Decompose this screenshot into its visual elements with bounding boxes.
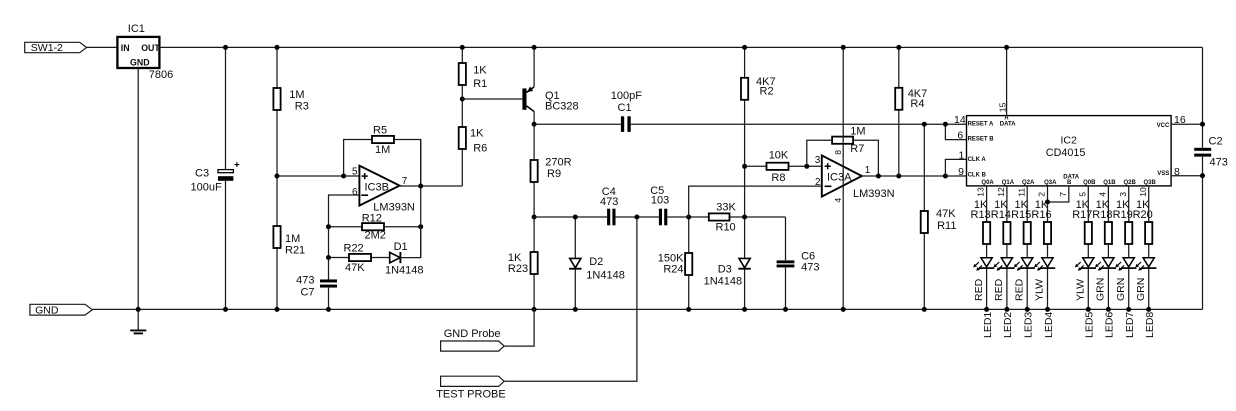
svg-text:Q1A: Q1A — [1002, 180, 1015, 186]
wire collector net to C1 and IC2 pin14 — [534, 123, 621, 125]
capacitor C1 100pF — [621, 116, 624, 132]
wire pin6 net — [329, 195, 360, 280]
svg-text:VCC: VCC — [1157, 123, 1170, 129]
svg-text:Q0B: Q0B — [1083, 180, 1096, 186]
svg-text:R13: R13 — [971, 209, 991, 221]
capacitor C2 473 — [1194, 148, 1211, 151]
wire mid net to IC3A pin2 — [689, 186, 822, 217]
flag GND — [30, 304, 93, 315]
svg-text:1K: 1K — [508, 252, 522, 264]
svg-text:100pF: 100pF — [611, 90, 642, 102]
diode D1 1N4148 — [390, 252, 401, 262]
svg-text:R24: R24 — [663, 263, 683, 275]
resistor R16 1K — [1044, 222, 1051, 244]
svg-text:1K: 1K — [473, 65, 487, 77]
svg-text:R9: R9 — [547, 168, 561, 180]
svg-text:13: 13 — [976, 187, 986, 197]
resistor R22 47K — [329, 257, 350, 259]
svg-text:R18: R18 — [1092, 209, 1112, 221]
svg-text:33K: 33K — [716, 201, 736, 213]
svg-text:3: 3 — [815, 155, 821, 166]
svg-text:473: 473 — [600, 196, 618, 208]
svg-text:14: 14 — [954, 114, 966, 126]
svg-text:R22: R22 — [344, 243, 364, 255]
resistor R20 1K — [1145, 222, 1152, 244]
svg-text:LM393N: LM393N — [373, 201, 415, 213]
svg-text:12: 12 — [996, 187, 1006, 197]
svg-text:1N4148: 1N4148 — [586, 269, 625, 281]
svg-text:R15: R15 — [1011, 209, 1031, 221]
wire IC3A output to IC2 CLK B — [862, 175, 967, 177]
LED LED5 YLW — [1083, 258, 1094, 267]
diode D2 1N4148 — [574, 217, 576, 258]
svg-text:RESET B: RESET B — [968, 136, 995, 142]
svg-text:11: 11 — [1016, 188, 1026, 197]
wire IC1 GND pin down to rail — [137, 68, 139, 309]
svg-text:D3: D3 — [718, 263, 732, 275]
svg-text:2: 2 — [1037, 192, 1047, 197]
svg-text:Q0A: Q0A — [981, 180, 994, 186]
svg-text:GND: GND — [35, 305, 59, 317]
svg-text:7: 7 — [1058, 192, 1068, 197]
op-amp IC3A LM393N — [822, 155, 862, 196]
svg-text:IC3B: IC3B — [365, 182, 389, 194]
LED LED7 GRN — [1123, 258, 1134, 267]
capacitor C3 100uF — [225, 47, 227, 169]
ground symbol — [137, 309, 139, 330]
svg-text:LED3: LED3 — [1023, 312, 1035, 338]
svg-text:GRN: GRN — [1135, 278, 1147, 301]
wire IC3A supply pins 8/4 — [842, 47, 844, 309]
svg-text:LED2: LED2 — [1002, 312, 1014, 338]
svg-text:LED4: LED4 — [1043, 312, 1055, 338]
svg-text:OUT: OUT — [141, 43, 160, 53]
svg-text:1N4148: 1N4148 — [385, 264, 424, 276]
svg-text:R21: R21 — [285, 244, 305, 256]
svg-text:BC328: BC328 — [545, 100, 579, 112]
svg-text:TEST PROBE: TEST PROBE — [436, 388, 505, 400]
svg-text:R12: R12 — [362, 212, 382, 224]
wire SW1-2 to IC1 IN — [87, 46, 118, 48]
LED LED2 RED — [1001, 258, 1012, 267]
wire IC2 pin15 DATA A — [1006, 47, 1008, 115]
LED LED3 RED — [1022, 258, 1033, 267]
svg-text:R4: R4 — [910, 98, 924, 110]
svg-text:CLK B: CLK B — [968, 172, 987, 178]
resistor R12 2M2 — [329, 226, 363, 228]
svg-text:4: 4 — [833, 198, 843, 203]
resistor R18 1K — [1105, 222, 1112, 244]
svg-text:473: 473 — [296, 274, 314, 286]
svg-text:VSS: VSS — [1157, 171, 1169, 177]
svg-text:Q1B: Q1B — [1103, 180, 1116, 186]
svg-text:IC3A: IC3A — [827, 172, 852, 184]
resistor R3 1M — [276, 47, 278, 88]
svg-text:1N4148: 1N4148 — [704, 275, 743, 287]
svg-text:IC2: IC2 — [1061, 135, 1078, 147]
resistor R17 1K — [1085, 222, 1092, 244]
svg-text:IN: IN — [121, 43, 130, 53]
shift register IC2 CD4015 — [967, 116, 1172, 186]
svg-text:6: 6 — [352, 187, 358, 198]
svg-text:1: 1 — [865, 165, 871, 176]
svg-text:R19: R19 — [1113, 209, 1133, 221]
svg-text:R23: R23 — [508, 263, 528, 275]
diode D3 1N4148 — [739, 258, 750, 267]
capacitor C7 473 — [320, 279, 337, 282]
wire GND Probe to rail — [504, 309, 534, 346]
svg-text:Q2A: Q2A — [1022, 180, 1035, 186]
svg-text:GND Probe: GND Probe — [444, 328, 501, 340]
svg-text:A: A — [1004, 115, 1009, 121]
transistor Q1 BC328 — [522, 88, 526, 109]
svg-text:10: 10 — [1138, 187, 1148, 197]
svg-text:R3: R3 — [295, 100, 309, 112]
wire base of Q1 — [462, 98, 522, 100]
resistor R2 4K7 — [744, 47, 746, 77]
svg-text:1M: 1M — [850, 125, 865, 137]
svg-text:RED: RED — [973, 278, 985, 301]
resistor R24 150K — [688, 217, 690, 253]
resistor R6 1K — [461, 149, 463, 186]
svg-text:473: 473 — [1210, 156, 1228, 168]
wire top rail (+6V) — [159, 46, 1202, 48]
resistor R23 1K — [533, 217, 535, 252]
svg-text:C2: C2 — [1209, 136, 1223, 148]
svg-text:R17: R17 — [1072, 209, 1092, 221]
resistor R10 33K — [709, 213, 730, 220]
svg-text:1: 1 — [959, 150, 965, 162]
svg-text:Q2B: Q2B — [1124, 180, 1137, 186]
svg-text:LED5: LED5 — [1084, 312, 1096, 338]
svg-text:9: 9 — [958, 166, 964, 178]
wire CLK A tie — [945, 159, 966, 176]
wire bottom GND rail — [92, 308, 1202, 310]
svg-text:100uF: 100uF — [191, 181, 222, 193]
resistor R19 1K — [1125, 222, 1132, 244]
svg-text:4: 4 — [1098, 192, 1108, 197]
svg-text:1M: 1M — [289, 89, 304, 101]
svg-text:7806: 7806 — [149, 69, 173, 81]
svg-text:LED7: LED7 — [1124, 312, 1136, 338]
svg-text:47K: 47K — [936, 208, 956, 220]
svg-text:R1: R1 — [473, 78, 487, 90]
svg-text:1M: 1M — [285, 233, 300, 245]
resistor R4 4K7 — [898, 47, 900, 87]
svg-text:D2: D2 — [589, 256, 603, 268]
resistor R5 1M feedback — [344, 140, 372, 177]
svg-text:C3: C3 — [195, 168, 209, 180]
svg-text:R14: R14 — [991, 209, 1011, 221]
wire IC2 VCC pin16 — [1171, 123, 1202, 125]
wire IC2 VSS pin8 — [1171, 175, 1202, 177]
svg-text:RESET A: RESET A — [968, 121, 994, 127]
capacitor C6 473 — [785, 217, 787, 260]
svg-text:RED: RED — [993, 278, 1005, 301]
svg-text:CLK A: CLK A — [968, 157, 987, 163]
LED LED4 YLW — [1042, 258, 1053, 267]
svg-text:6: 6 — [957, 130, 963, 142]
capacitor C4 473 — [607, 209, 610, 226]
svg-text:R11: R11 — [937, 220, 956, 232]
capacitor C5 103 — [659, 209, 662, 226]
svg-text:LED6: LED6 — [1104, 312, 1116, 338]
wire IC3B output net — [400, 185, 463, 187]
svg-text:DATA: DATA — [1000, 122, 1016, 128]
svg-text:2: 2 — [815, 177, 821, 188]
svg-text:R2: R2 — [760, 86, 774, 98]
wire RESET B tie — [945, 124, 966, 139]
svg-text:8: 8 — [833, 150, 843, 155]
svg-text:1M: 1M — [375, 144, 390, 156]
svg-text:5: 5 — [1077, 192, 1087, 197]
resistor R13 1K — [983, 222, 990, 244]
resistor R21 1M — [276, 176, 278, 226]
svg-text:2M2: 2M2 — [365, 229, 386, 241]
svg-text:R16: R16 — [1031, 209, 1051, 221]
svg-text:R6: R6 — [473, 143, 487, 155]
svg-text:YLW: YLW — [1075, 279, 1087, 301]
svg-text:IC1: IC1 — [128, 23, 145, 35]
svg-text:C7: C7 — [300, 286, 314, 298]
svg-text:YLW: YLW — [1034, 279, 1046, 301]
svg-text:DATA: DATA — [1063, 174, 1079, 180]
svg-text:LED8: LED8 — [1144, 312, 1156, 338]
svg-text:103: 103 — [651, 195, 669, 207]
svg-text:GND: GND — [130, 57, 150, 67]
wire node pin5 net — [277, 175, 359, 177]
op-amp IC3B LM393N — [359, 166, 399, 206]
resistor R14 1K — [1003, 222, 1010, 244]
wire right edge VSS to bottom rail — [1202, 157, 1204, 310]
resistor R9 270R — [533, 124, 535, 160]
svg-text:R10: R10 — [716, 221, 736, 233]
svg-text:10K: 10K — [769, 150, 789, 162]
svg-text:Q3B: Q3B — [1144, 180, 1157, 186]
resistor R8 10K — [745, 165, 767, 167]
svg-text:3: 3 — [1118, 192, 1128, 197]
flag SW1-2 — [25, 42, 87, 52]
svg-text:GRN: GRN — [1115, 278, 1127, 301]
wire IC2 DATA B pin7 cascade — [1048, 186, 1069, 202]
flag TEST PROBE — [441, 376, 505, 386]
LED LED1 RED — [981, 258, 992, 267]
LED LED8 GRN — [1143, 258, 1154, 267]
svg-text:C1: C1 — [618, 102, 632, 114]
svg-text:473: 473 — [801, 261, 819, 273]
resistor R11 47K — [923, 124, 925, 211]
svg-text:15: 15 — [997, 102, 1007, 112]
wire mid net — [534, 216, 607, 218]
svg-text:GRN: GRN — [1095, 278, 1107, 301]
svg-text:B: B — [1067, 180, 1072, 186]
svg-text:SW1-2: SW1-2 — [31, 42, 63, 54]
svg-text:47K: 47K — [345, 262, 365, 274]
svg-text:5: 5 — [352, 166, 358, 177]
wire TEST PROBE branch — [504, 217, 637, 381]
resistor R7 1M feedback — [807, 140, 832, 166]
svg-text:Q3A: Q3A — [1044, 180, 1057, 186]
wire right edge down to VCC — [1202, 47, 1204, 147]
svg-text:RED: RED — [1013, 278, 1025, 301]
svg-text:1K: 1K — [470, 128, 484, 140]
svg-text:R7: R7 — [850, 143, 864, 155]
svg-text:D1: D1 — [394, 241, 408, 253]
flag GND Probe — [441, 341, 505, 351]
resistor R15 1K — [1024, 222, 1031, 244]
svg-text:LED1: LED1 — [982, 312, 994, 338]
svg-text:270R: 270R — [545, 156, 571, 168]
svg-text:R20: R20 — [1133, 209, 1153, 221]
svg-text:CD4015: CD4015 — [1046, 147, 1086, 159]
svg-text:R8: R8 — [771, 172, 785, 184]
svg-text:LM393N: LM393N — [853, 188, 895, 200]
svg-text:R5: R5 — [373, 124, 387, 136]
resistor R1 1K — [461, 85, 463, 99]
regulator IC1 7806 — [117, 37, 159, 68]
LED LED6 GRN — [1103, 258, 1114, 267]
